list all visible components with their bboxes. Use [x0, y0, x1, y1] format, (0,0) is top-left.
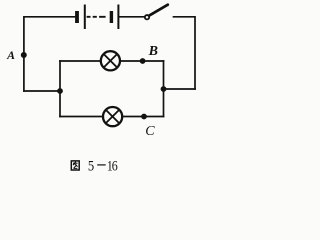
- wire right branch vertical: [163, 61, 165, 117]
- wire switch to top-right corner and down right side: [174, 17, 196, 89]
- svg-text:6: 6: [112, 157, 118, 174]
- battery G1 cell 1 short plate: [75, 11, 79, 23]
- svg-text:C: C: [145, 124, 155, 139]
- wire battery to switch: [118, 16, 144, 18]
- battery G1 cell 2 long plate: [117, 5, 119, 30]
- wire mid-right horizontal: [164, 88, 196, 90]
- lamp L1: [101, 51, 120, 70]
- wire lower branch: [60, 116, 164, 118]
- junction dot left (parallel split): [57, 88, 63, 94]
- caption glyph 图 (drawn): [71, 161, 79, 170]
- svg-text:B: B: [148, 44, 158, 59]
- wire left branch vertical: [59, 61, 61, 117]
- caption dash: [97, 164, 106, 166]
- battery dashed link: [87, 16, 106, 18]
- wire top-left from corner to battery: [24, 17, 75, 91]
- junction dot right (parallel merge): [161, 86, 167, 92]
- node A junction dot: [21, 52, 27, 58]
- lamp L2: [103, 107, 122, 126]
- switch S pivot: [145, 15, 149, 19]
- node C junction dot: [141, 114, 147, 120]
- switch S blade: [149, 5, 168, 16]
- wire bottom-left horizontal: [24, 90, 60, 92]
- svg-text:A: A: [6, 48, 15, 62]
- svg-text:5: 5: [88, 158, 94, 174]
- node B junction dot: [140, 58, 146, 64]
- wire upper branch: [60, 60, 164, 62]
- battery G1 cell 2 short plate: [110, 11, 113, 23]
- battery G1 cell 1 long plate: [84, 5, 86, 30]
